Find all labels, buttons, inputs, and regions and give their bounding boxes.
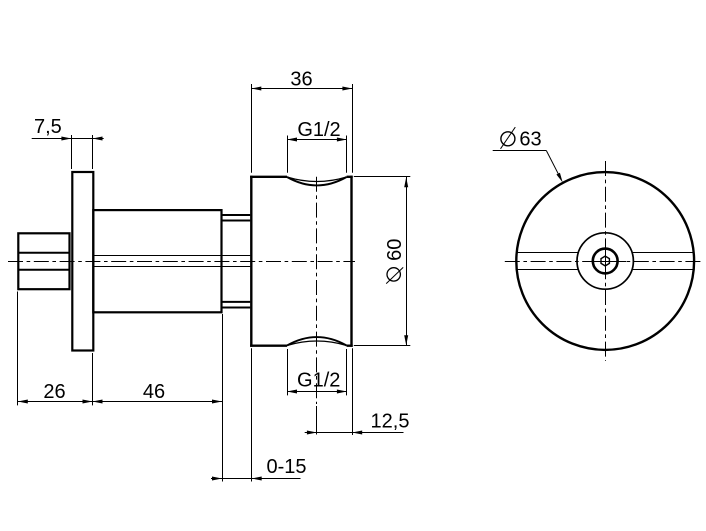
step collar outer top [222,214,251,216]
flange vertical centerline [605,161,607,361]
inner boss circle [577,233,633,289]
left view: side elevation of concealed wall valve [8,172,355,435]
diameter symbol of 60 [387,268,400,281]
right view: flange front view [505,161,704,361]
dimension 12,5 [305,348,410,435]
dimension G1/2 top [287,119,347,173]
hexagon socket [601,256,609,266]
port centerline solid extension [316,406,318,435]
dimension diameter 60 with rotated text [354,177,411,346]
svg-text:36: 36 [290,68,312,90]
diameter symbol of 63 [501,132,515,146]
stem edge lower-right line [632,269,694,271]
svg-text:G1/2: G1/2 [297,370,340,392]
G1/2 top port mouth shallow arc [287,177,347,182]
dimensions 26 and 46 [18,292,223,406]
dimension G1/2 bottom [287,349,347,395]
svg-text:7,5: 7,5 [34,116,62,138]
label diameter 63 with leader [493,127,563,182]
barrel bottom edge right segment [347,345,353,347]
stem edge lower-left line [517,269,579,271]
spindle flat upper edge [18,252,69,254]
svg-text:60: 60 [384,239,406,261]
stem edge upper-right line [632,252,694,254]
step collar outer bottom [222,307,251,309]
stem lower line [94,266,250,268]
barrel (60 mm cylinder) left edge [250,176,252,347]
square spindle end [18,233,69,289]
step collar inner bottom [222,301,251,303]
thick ring [593,249,618,274]
svg-text:0-15: 0-15 [266,456,306,478]
wall flange [72,172,93,351]
G1/2 bottom port mouth shallow arc [287,341,347,346]
barrel right edge [350,176,352,347]
dimension 0-15 adjustment range [211,314,307,482]
barrel top edge right segment [347,176,353,178]
dimension 7,5 flange thickness [32,116,104,169]
leader slanted segment with arrow [546,151,560,177]
barrel bottom edge left segment [250,345,287,347]
port vertical centerline [316,177,318,404]
flange horizontal centerline [505,261,704,263]
center mark horizontal [586,261,626,263]
svg-text:G1/2: G1/2 [297,119,340,141]
svg-text:26: 26 [43,381,65,403]
spindle flat lower edge [18,269,69,271]
body cylinder [93,210,221,312]
leader horizontal segment [493,150,547,152]
G1/2 top port mouth deep arc [287,177,347,185]
main horizontal centerline [8,261,355,263]
stem upper line [94,255,250,257]
G1/2 bottom port mouth deep arc [287,337,347,345]
barrel top edge left segment [250,176,287,178]
dimension 36 [251,68,352,173]
svg-text:63: 63 [519,128,541,150]
flange outline circle d63 [516,172,694,350]
step collar inner top [222,220,251,222]
svg-text:46: 46 [143,381,165,403]
svg-text:12,5: 12,5 [371,410,410,432]
center mark vertical [605,241,607,278]
stem edge upper-left line [517,252,579,254]
